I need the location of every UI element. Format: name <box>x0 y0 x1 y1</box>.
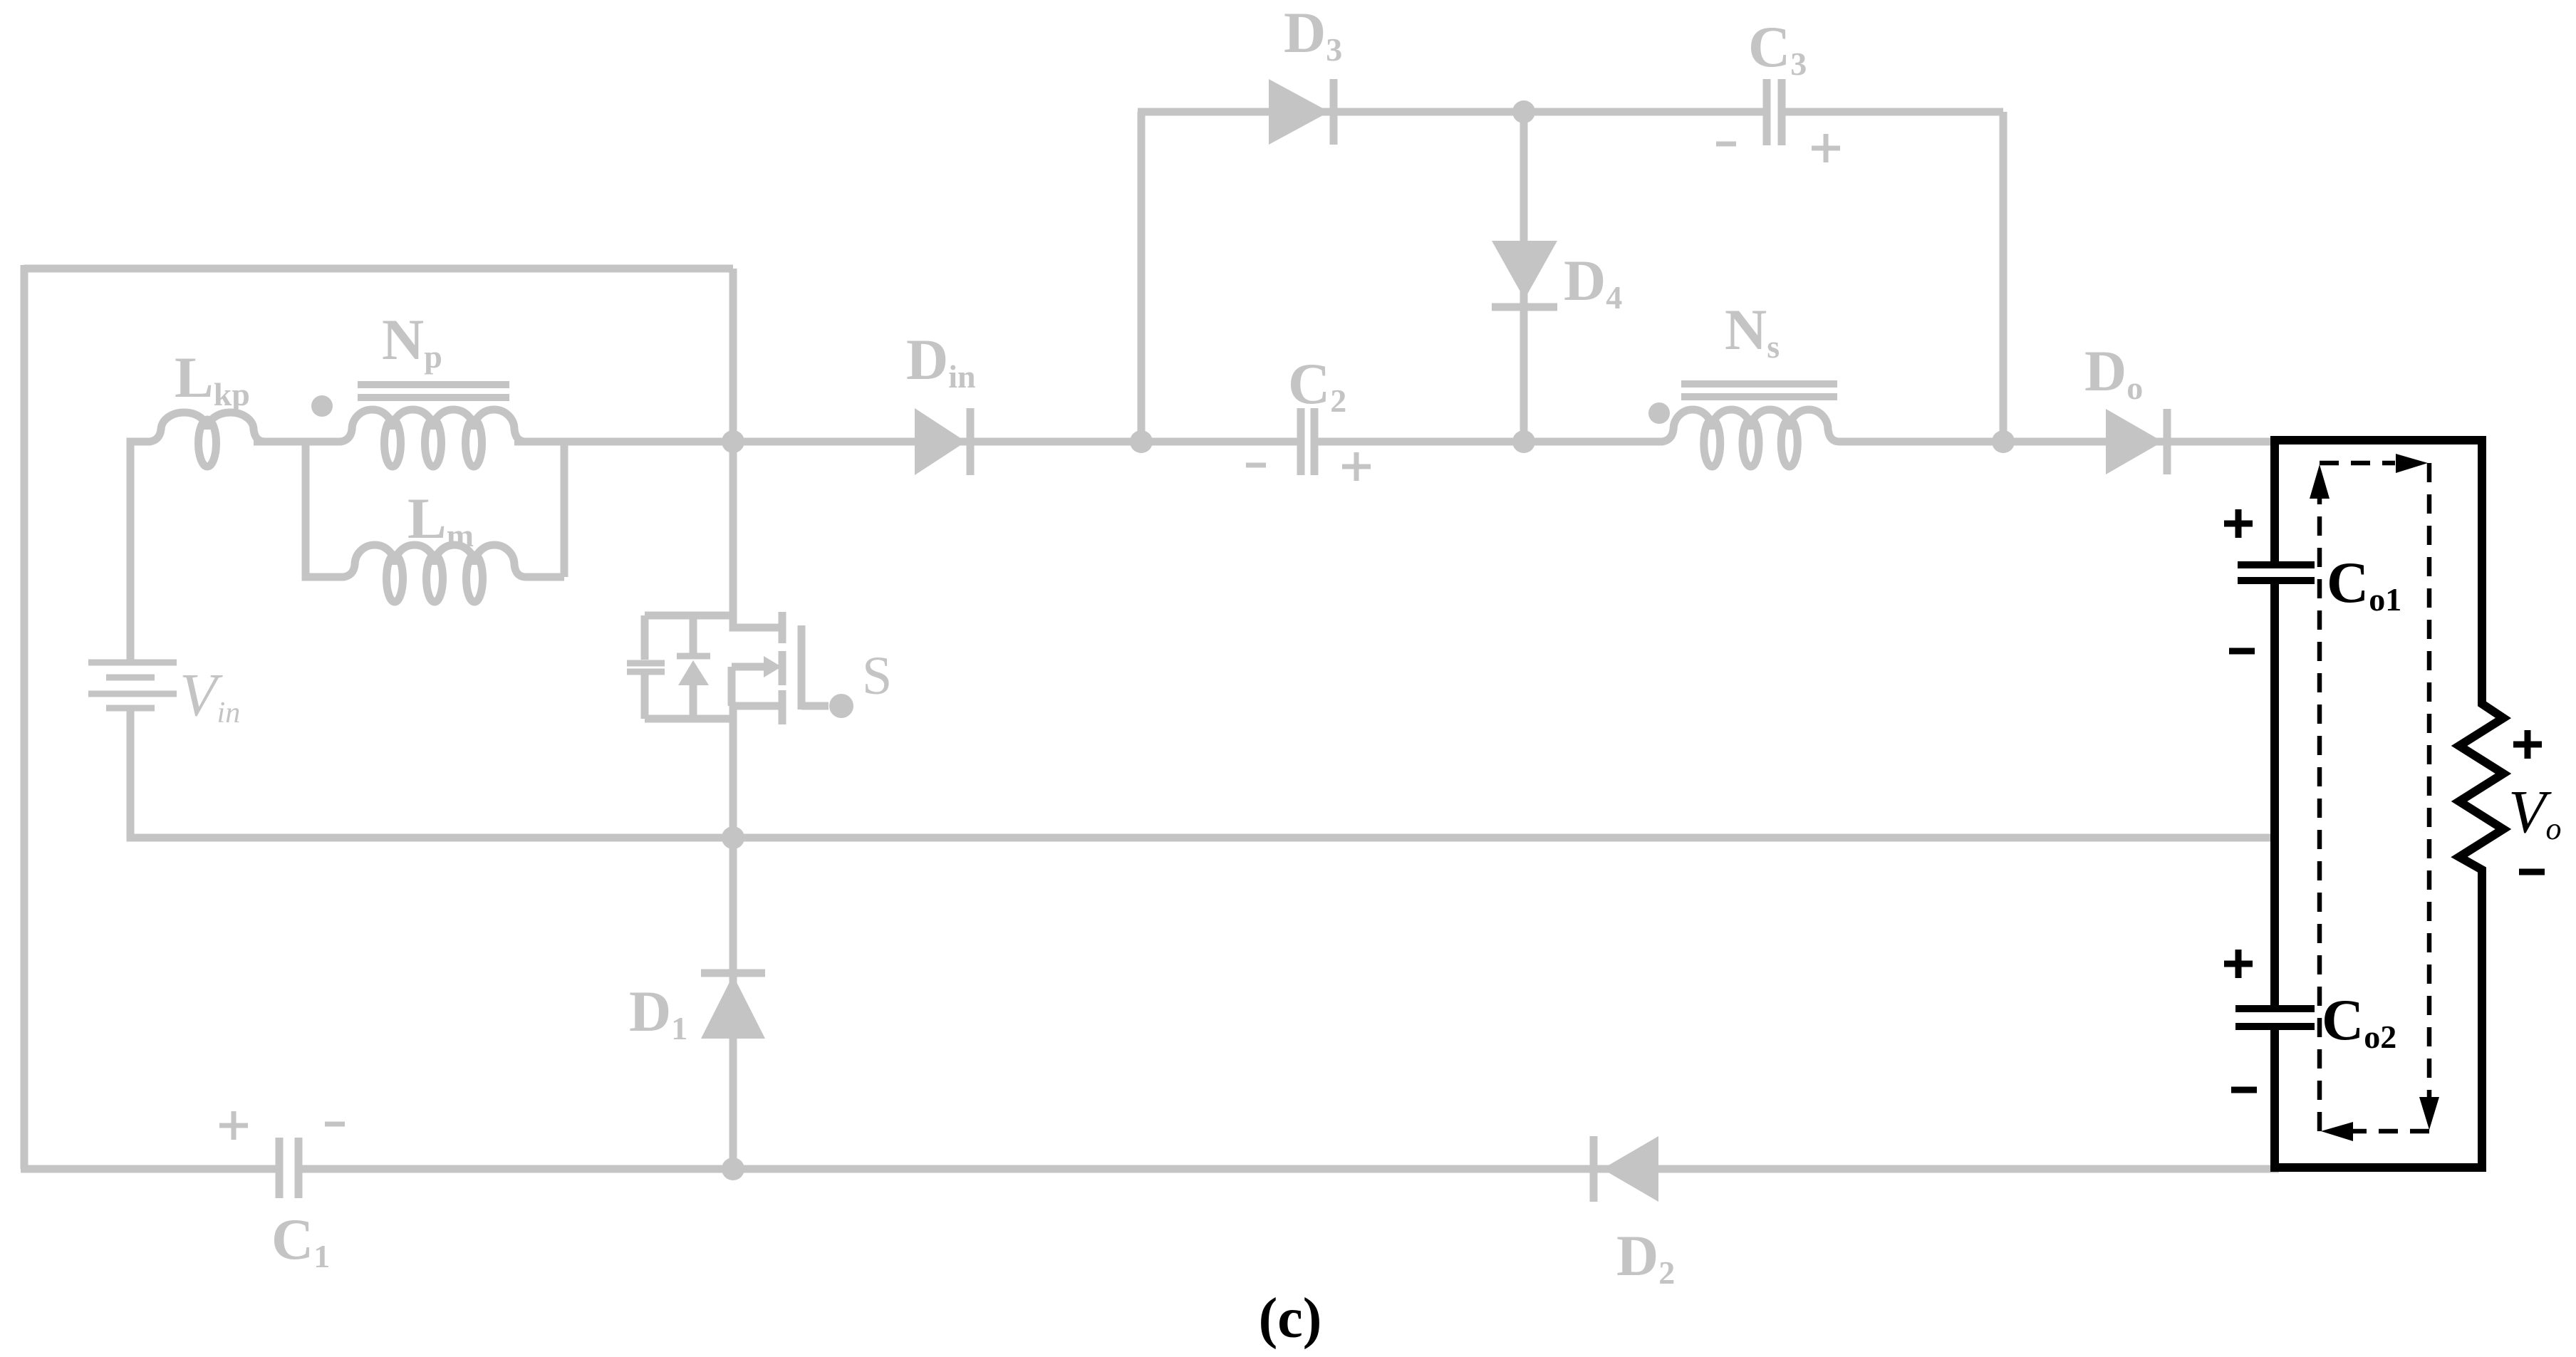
capacitor Co2 <box>2235 1009 2315 1026</box>
wire: input frame left side <box>21 265 28 1169</box>
MOSFET source lead <box>732 667 782 838</box>
diode D1 <box>701 969 765 977</box>
svg-text:Do: Do <box>2084 338 2143 406</box>
wire: input frame top <box>24 265 733 273</box>
diode D4 <box>1492 241 1557 299</box>
plus sign C3 <box>1812 134 1840 162</box>
wire: Lkp to Np <box>254 438 335 446</box>
capacitor Co1 <box>2238 565 2315 581</box>
junction dot: Ns/C3 node <box>1992 430 2015 453</box>
wire: Np to Din (main bus) <box>514 438 1301 446</box>
polarity dot Np <box>311 395 333 417</box>
dashed current loop right <box>2427 463 2432 1097</box>
svg-text:Lm: Lm <box>407 486 474 553</box>
junction dot: Din cathode node <box>1130 430 1153 453</box>
inductor Lkp <box>137 412 278 442</box>
output box left side <box>2270 436 2279 1172</box>
svg-text:Vo: Vo <box>2508 777 2562 846</box>
svg-text:(c): (c) <box>1259 1287 1322 1350</box>
svg-text:C3: C3 <box>1748 14 1807 82</box>
svg-text:Vin: Vin <box>180 660 240 729</box>
capacitor C1 <box>279 1138 298 1198</box>
MOSFET gate bar <box>798 625 806 709</box>
plus sign C1 <box>219 1111 248 1140</box>
wire: middle bus <box>130 834 2279 838</box>
minus sign C2 <box>1246 463 1266 468</box>
wire: D4 branch <box>1520 112 1528 442</box>
dashed current loop bottom <box>2352 1129 2429 1134</box>
transformer core bars (secondary) <box>1681 384 1837 397</box>
svg-text:D1: D1 <box>629 979 687 1046</box>
minus sign Co1 <box>2229 648 2255 655</box>
minus sign C3 <box>1716 142 1736 147</box>
svg-text:D2: D2 <box>1616 1223 1675 1291</box>
minus sign C1 <box>325 1122 345 1127</box>
diode Do <box>2106 409 2163 474</box>
wire: Vin positive lead up to Lkp <box>130 442 142 662</box>
junction dot: top loop / D4 <box>1512 100 1535 123</box>
magnetizing inductance branch wires <box>306 442 564 577</box>
diode D2 <box>1590 1136 1598 1202</box>
junction dot: source/middle bus <box>722 826 744 849</box>
transformer secondary winding Ns <box>1649 410 1852 442</box>
svg-text:Din: Din <box>906 327 976 395</box>
plus sign C2 <box>1342 452 1371 481</box>
wire: Ns to output <box>1845 438 2279 446</box>
minus sign Vo <box>2519 869 2545 875</box>
wire: riser to clamp loop <box>1138 112 1146 442</box>
dashed current loop top <box>2320 461 2395 466</box>
svg-text:C1: C1 <box>271 1207 330 1274</box>
MOSFET drain lead <box>733 269 782 628</box>
svg-text:Ns: Ns <box>1725 297 1780 365</box>
output box top <box>2275 436 2482 444</box>
capacitor C3 <box>1767 79 1782 145</box>
wire: bottom return bus <box>21 1165 2279 1173</box>
diode D1 branch <box>729 838 737 1169</box>
junction dot: C2/D4 node <box>1512 430 1535 453</box>
svg-text:D4: D4 <box>1564 248 1622 316</box>
snubber rails <box>645 615 733 719</box>
battery Vin <box>88 662 177 708</box>
junction dot: Np node <box>722 430 744 453</box>
svg-text:Co1: Co1 <box>2327 550 2401 618</box>
MOSFET channel bar <box>779 612 786 724</box>
svg-text:C2: C2 <box>1288 351 1346 419</box>
body diode <box>690 615 697 719</box>
inductor Lm <box>331 545 539 577</box>
plus sign Vo <box>2513 730 2542 759</box>
junction dot: D1/bottom bus <box>722 1158 744 1180</box>
transformer core bars (primary) <box>358 385 509 397</box>
MOSFET body arrow <box>732 663 764 671</box>
transformer primary winding Np <box>328 410 539 442</box>
svg-text:Co2: Co2 <box>2322 987 2396 1055</box>
output box bottom <box>2270 1163 2482 1172</box>
svg-text:Np: Np <box>382 307 442 375</box>
minus sign Co2 <box>2231 1087 2257 1093</box>
snubber capacitor <box>641 615 649 719</box>
svg-text:D3: D3 <box>1284 0 1342 68</box>
wire: C2 to Ns <box>1314 438 1656 446</box>
dashed current loop left <box>2317 499 2322 1131</box>
MOSFET gate lead and terminal <box>801 702 829 710</box>
svg-text:Lkp: Lkp <box>175 345 250 412</box>
plus sign Co1 <box>2224 509 2253 538</box>
svg-text:S: S <box>862 646 892 706</box>
polarity dot Ns <box>1648 402 1670 424</box>
output box right side with load resistor <box>2459 436 2503 1172</box>
wire: Vin negative lead down <box>127 708 135 838</box>
capacitor C2 <box>1301 408 1314 475</box>
diode Din <box>915 408 966 475</box>
plus sign Co2 <box>2224 950 2253 978</box>
diode D3 <box>1269 79 1329 145</box>
wire: top loop <box>1138 112 2003 442</box>
